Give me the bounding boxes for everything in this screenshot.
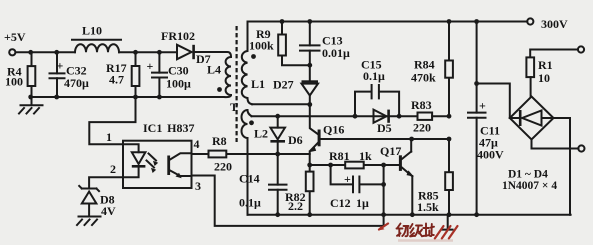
wire C11 to bridge left vertex (477, 84, 510, 119)
svg-text:D6: D6 (288, 133, 303, 147)
transformer core (230, 26, 238, 142)
svg-text:0.1μ: 0.1μ (239, 196, 261, 210)
node C15/D5 left (353, 114, 358, 119)
svg-text:+: + (344, 172, 351, 186)
resistor R17 (106, 52, 139, 97)
resistor R81 (329, 149, 372, 168)
wire top rail secondary (248, 21, 528, 23)
node L2 polarity dot (249, 120, 254, 125)
pin 3 label (195, 179, 201, 193)
terminal +5V (4, 30, 26, 55)
wire net B (L2 top to R83) (252, 115, 418, 117)
terminal upper right (530, 46, 584, 57)
wire IC pin2 to D8 (89, 177, 123, 188)
transformer winding L4 (207, 57, 231, 95)
svg-text:D1 ~ D4: D1 ~ D4 (508, 169, 548, 181)
pin 4 label (194, 137, 200, 151)
svg-text:10: 10 (538, 71, 550, 85)
capacitor C15 (355, 58, 399, 117)
wire R8/D6 row (192, 153, 310, 155)
capacitor C13 (300, 22, 350, 66)
wire R81 row (310, 164, 400, 166)
node R17 top (133, 50, 138, 55)
wire C12 node to ground rail (383, 184, 385, 214)
svg-text:L4: L4 (207, 63, 221, 77)
diode D5 (374, 110, 392, 135)
transformer winding L1 (242, 22, 265, 105)
node R4 top (28, 50, 33, 55)
node L1/D27/Q16-collector junction (307, 102, 312, 107)
red text primary-ground (chu ji di) (397, 224, 435, 237)
wire R17 column to IC pin1 (jog) (89, 97, 135, 144)
transformer winding L2 (242, 110, 269, 215)
node R85 top (447, 137, 452, 142)
svg-text:+: + (479, 99, 486, 113)
svg-text:+5V: +5V (4, 30, 26, 44)
svg-text:+: + (147, 59, 154, 73)
red ground symbol (398, 215, 458, 241)
svg-text:400V: 400V (477, 148, 504, 162)
node C30 top (157, 50, 162, 55)
diode D27 (273, 65, 318, 104)
capacitor C14 (239, 154, 287, 215)
node C11 rail (474, 212, 479, 217)
inductor L10 (72, 24, 121, 53)
node C14 rail (275, 212, 280, 217)
svg-text:1: 1 (106, 130, 112, 144)
node C11/bridge tap (474, 81, 479, 86)
svg-text:2.2: 2.2 (288, 199, 303, 213)
node Q17 collector / base row (409, 137, 414, 142)
resistor R83 (411, 98, 449, 135)
svg-text:100μ: 100μ (166, 77, 191, 91)
capacitor C12 (330, 165, 384, 210)
svg-text:+: + (57, 59, 64, 73)
ground (cold) under R4 (19, 97, 43, 114)
wire primary ground rail (248, 214, 571, 216)
node C12 rail (381, 212, 386, 217)
svg-text:IC1 H837: IC1 H837 (143, 121, 194, 135)
node C12/ground column (381, 182, 386, 187)
zener D8 (79, 186, 116, 218)
svg-text:1μ: 1μ (356, 196, 369, 210)
resistor R8 (209, 134, 233, 174)
resistor R9 (249, 22, 310, 66)
light arrows (147, 154, 159, 174)
node Q16 emitter / R81 row (307, 163, 312, 168)
node C32 top (54, 50, 59, 55)
svg-text:0.01μ: 0.01μ (322, 46, 350, 60)
node L4 polarity dot (217, 87, 222, 92)
pin 1 label (106, 130, 112, 144)
svg-text:D5: D5 (377, 121, 392, 135)
terminal 300V (527, 17, 568, 31)
node R85 rail (447, 212, 452, 217)
svg-text:3: 3 (195, 179, 201, 193)
diode D7 FR102 (161, 29, 211, 66)
wire bridge bottom to terminal (532, 140, 579, 149)
node C30 bottom (157, 95, 162, 100)
transistor Q16 (309, 105, 344, 166)
svg-text:100: 100 (5, 75, 23, 89)
node D6/R8/C14 junction (275, 152, 280, 157)
node R4 bottom (28, 95, 33, 100)
svg-text:470μ: 470μ (64, 76, 89, 90)
resistor R4 (5, 52, 35, 97)
node R17 bottom (133, 95, 138, 100)
svg-text:Q17: Q17 (380, 144, 401, 158)
svg-text:R8: R8 (212, 134, 227, 148)
svg-text:4.7: 4.7 (109, 73, 124, 87)
svg-text:R1: R1 (538, 58, 553, 72)
node C13 top (307, 19, 312, 24)
node C15/D5 right (397, 114, 402, 119)
diode D6 (270, 116, 302, 154)
wire Q16 base row to Q17 collector and R85 (321, 138, 449, 140)
svg-text:4V: 4V (101, 204, 116, 218)
wire L10 to D7 (119, 51, 177, 53)
wire bottom-left rail (32, 95, 232, 97)
svg-text:L10: L10 (82, 24, 102, 38)
node C12 left (328, 163, 333, 168)
svg-text:C14: C14 (239, 172, 260, 186)
wire bridge right vertex to ground rail (554, 118, 571, 215)
capacitor C32 (50, 52, 90, 97)
wire top-left rail (16, 51, 75, 53)
svg-text:300V: 300V (541, 17, 568, 31)
svg-text:1k: 1k (359, 149, 372, 163)
svg-text:220: 220 (214, 160, 232, 174)
node Q17 emitter rail (410, 212, 415, 217)
svg-text:L2: L2 (254, 127, 268, 141)
transistor Q17 (380, 139, 414, 215)
wire IC pin3 to ground rail (192, 176, 384, 226)
node R84 top rail (447, 19, 452, 24)
svg-text:2: 2 (110, 162, 116, 176)
svg-text:4: 4 (194, 137, 200, 151)
capacitor C30 (147, 52, 192, 97)
red annotation arrow (378, 224, 388, 231)
svg-text:Q16: Q16 (323, 123, 344, 137)
node C11 top (474, 19, 479, 24)
svg-text:C30: C30 (168, 64, 189, 78)
svg-text:100k: 100k (249, 39, 274, 53)
svg-text:FR102: FR102 (161, 29, 195, 43)
LED inside IC1 (123, 144, 145, 177)
node D6 top (275, 114, 280, 119)
bridge rectifier D1-D4 (502, 97, 557, 193)
ground (cold) under D8 (77, 217, 101, 226)
svg-text:R81: R81 (329, 149, 350, 163)
svg-text:470k: 470k (411, 71, 436, 85)
node R83/R84 junction (447, 114, 452, 119)
svg-text:R83: R83 (411, 98, 432, 112)
pin 2 label (110, 162, 116, 176)
svg-text:R84: R84 (414, 58, 435, 72)
svg-text:220: 220 (413, 121, 431, 135)
node C12 right (381, 163, 386, 168)
node L1 polarity dot (251, 54, 256, 59)
resistor R1 (526, 57, 552, 96)
resistor R85 (417, 139, 453, 215)
resistor R82 (285, 165, 314, 215)
node C32 bottom (54, 95, 59, 100)
svg-text:L1: L1 (251, 77, 265, 91)
wire L1 bottom to D27/Q16 node (252, 103, 310, 105)
resistor R84 (411, 22, 453, 117)
svg-text:C12: C12 (330, 196, 351, 210)
svg-text:1.5k: 1.5k (417, 200, 439, 214)
node R9/C13/D27 junction (307, 63, 312, 68)
svg-text:D27: D27 (273, 78, 294, 92)
wire D7 to L4 (195, 52, 231, 57)
node R9 top (280, 19, 285, 24)
svg-text:1N4007 × 4: 1N4007 × 4 (502, 180, 557, 192)
phototransistor inside IC1 (167, 153, 191, 178)
svg-text:T: T (230, 100, 238, 114)
terminal lower right (578, 145, 584, 151)
capacitor C11 (468, 22, 504, 215)
svg-text:0.1μ: 0.1μ (363, 69, 385, 83)
node R82 rail (307, 212, 312, 217)
op-amp IC1 H837 box (123, 121, 194, 188)
